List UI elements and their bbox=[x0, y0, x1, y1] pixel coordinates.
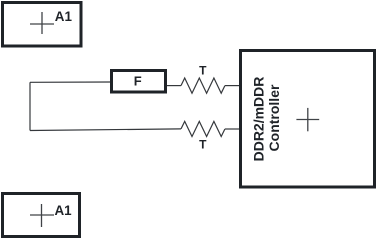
svg-text:A1: A1 bbox=[55, 9, 73, 24]
filter F bbox=[112, 71, 166, 93]
resistor T (bottom) bbox=[181, 121, 225, 136]
svg-text:T: T bbox=[199, 64, 207, 78]
connector A1 (bottom) bbox=[3, 194, 80, 237]
svg-text:F: F bbox=[134, 73, 142, 88]
connector A1 (top) bbox=[3, 3, 82, 47]
svg-text:T: T bbox=[199, 138, 207, 152]
DDR2/mDDR Controller U1 bbox=[241, 51, 375, 188]
node A1 bottom cross bbox=[30, 204, 54, 227]
wire resistor T bottom to controller bbox=[225, 128, 240, 130]
svg-text:A1: A1 bbox=[55, 203, 73, 218]
wire top segment to F bbox=[30, 81, 110, 83]
svg-text:DDR2/mDDR: DDR2/mDDR bbox=[251, 77, 267, 162]
wire bottom segment bbox=[30, 129, 181, 131]
node A1 top cross bbox=[30, 12, 54, 34]
wire left vertical bbox=[29, 82, 31, 130]
node cross in controller bbox=[296, 108, 319, 131]
svg-text:Controller: Controller bbox=[266, 84, 282, 151]
wire F to resistor T top bbox=[167, 85, 181, 87]
wire resistor T top to controller bbox=[225, 85, 240, 87]
resistor T (top) bbox=[181, 78, 225, 93]
